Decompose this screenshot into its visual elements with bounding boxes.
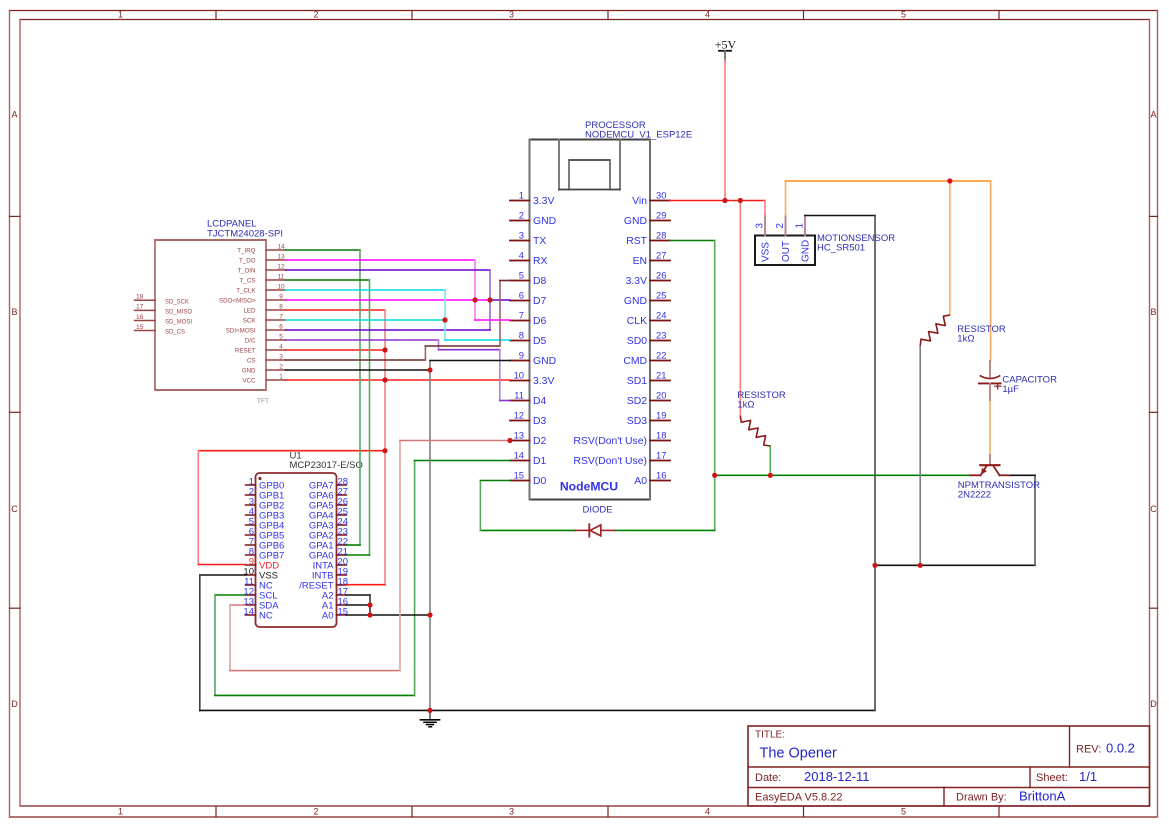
svg-text:16: 16 [136,314,144,321]
wire LCD SDI<MOSI purple [286,329,491,331]
wire resistor R2 top orange [949,181,951,315]
U1 pin 10 VSS [243,567,278,582]
wire base line green [715,474,970,476]
LCD pin 9 SDO<MISO> [219,293,285,304]
wire NodeMCU RST green [670,240,715,242]
svg-text:5: 5 [519,270,524,281]
wire LCD SCK cyan [286,319,446,321]
capacitor C1 1uF [979,361,1001,400]
wire D0 drop green [479,481,481,531]
LCD pin 5 D/C [245,333,286,344]
svg-text:TX: TX [533,236,546,247]
svg-text:The Opener: The Opener [760,745,838,761]
diode D1 [575,524,614,536]
resistor R2 1k [920,315,950,346]
svg-text:A0: A0 [634,476,647,487]
svg-text:RESET: RESET [235,347,256,354]
svg-text:29: 29 [656,210,666,221]
wire LCD RESET red [286,349,386,351]
NodeMCU pin 5 D8 [510,270,547,288]
NodeMCU pin 12 D3 [510,410,547,428]
svg-text:8: 8 [279,303,283,310]
wire SDA drop salmon [229,605,231,671]
NodeMCU pin 21 SD1 [627,370,670,388]
wire LCD T_DIN purple [286,269,491,271]
wire ground bus black [200,709,875,711]
wire U1 A1 black [347,604,371,606]
svg-text:3: 3 [509,807,514,817]
svg-text:A0: A0 [322,610,334,621]
svg-text:A: A [11,110,17,120]
svg-text:9: 9 [279,293,283,300]
NodeMCU pin 1 3.3V [510,190,554,208]
wire +5V drop red [724,61,726,201]
NodeMCU pin 15 D0 [510,470,547,488]
svg-text:15: 15 [338,607,349,618]
svg-text:1kΩ: 1kΩ [737,400,754,411]
svg-text:TJCTM24028-SPI: TJCTM24028-SPI [207,229,283,240]
svg-text:SD_MISO: SD_MISO [165,310,192,316]
junction RESET power [382,347,387,352]
wire LCD VCC to NodeMCU 3.3V red [286,379,511,381]
svg-text:D4: D4 [533,396,547,407]
wire T_DIN drop purple [489,270,491,330]
svg-text:A: A [1150,110,1156,120]
svg-text:TITLE:: TITLE: [755,730,785,741]
NodeMCU antenna notch outer [559,140,620,190]
junction sensor gnd emitter [872,563,877,568]
junction SDO D7 [487,297,492,302]
svg-text:11: 11 [278,273,285,280]
svg-text:21: 21 [656,370,666,381]
NodeMCU pin 17 RSV(Don't Use) [573,450,670,468]
U1 pin 7 GPB6 [246,537,285,552]
NodeMCU processor box [530,140,651,500]
U1 pin 2 GPB1 [246,487,285,502]
frame row labels left [11,110,18,710]
U1 pin 21 GPA0 [309,547,348,562]
U1 pin 15 A0 [322,607,348,622]
U1 pin 3 GPB2 [246,497,285,512]
svg-text:1: 1 [118,807,123,817]
U1 pin 19 INTB [312,567,348,582]
NodeMCU pin 2 GND [510,210,556,228]
wire diode right green [615,529,715,531]
svg-text:16: 16 [656,470,666,481]
wire CS jog brown [424,346,426,360]
svg-text:B: B [1150,307,1156,317]
svg-text:SDO<MISO>: SDO<MISO> [219,297,256,304]
svg-text:7: 7 [279,313,283,320]
svg-text:3: 3 [509,10,514,20]
frame row labels right [1150,110,1157,710]
svg-text:19: 19 [656,410,666,421]
svg-text:HC_SR501: HC_SR501 [817,243,865,254]
svg-text:3: 3 [755,223,766,229]
svg-text:D5: D5 [533,336,547,347]
wire CS mid brown [425,345,500,347]
wire capacitor top orange [990,181,992,361]
LCD pin 13 T_DO [239,253,286,264]
svg-text:D/C: D/C [245,337,256,344]
junction orange R2 [947,178,952,183]
motion sensor pin 2 OUT [775,216,792,263]
svg-text:18: 18 [136,294,144,301]
NodeMCU pin 22 CMD [623,350,670,368]
svg-text:11: 11 [514,390,524,401]
NodeMCU pin 28 RST [626,230,670,248]
wire SCL to D1 bottom green [215,694,415,696]
svg-text:GND: GND [533,216,556,227]
svg-text:RSV(Don't Use): RSV(Don't Use) [573,456,647,467]
svg-text:VSS: VSS [761,242,772,262]
svg-text:RST: RST [626,236,647,247]
wire transistor emitter black [1010,474,1036,476]
svg-text:1kΩ: 1kΩ [957,334,974,345]
junction A2 A1 [367,602,372,607]
svg-text:20: 20 [656,390,666,401]
svg-text:3: 3 [519,230,524,241]
svg-text:27: 27 [656,250,666,261]
svg-text:SD1: SD1 [627,376,647,387]
svg-text:14: 14 [277,243,285,250]
svg-text:8: 8 [519,330,524,341]
wire red VDD drop [197,451,199,565]
junction R2 gnd [918,563,923,568]
U1 pin 23 GPA2 [309,527,348,542]
svg-text:SD_SCK: SD_SCK [165,300,189,306]
NodeMCU pin 27 EN [633,250,670,268]
frame column labels top [118,10,906,20]
wire U1 SDA salmon [230,604,246,606]
U1 pin 24 GPA3 [309,517,348,532]
svg-text:13: 13 [514,430,524,441]
LCD pin 16 SD_MOSI [135,314,193,326]
svg-text:OUT: OUT [781,241,792,262]
svg-text:1µF: 1µF [1002,384,1019,395]
junction D2 pin [507,438,512,443]
wire LCD CS brown [286,359,426,361]
svg-text:13: 13 [277,253,285,260]
wire NodeMCU D8 brown [500,280,510,282]
svg-text:RSV(Don't Use): RSV(Don't Use) [573,436,647,447]
LCD pin 4 RESET [235,343,286,354]
svg-text:D7: D7 [533,296,547,307]
U1 pin 13 SDA [243,597,279,612]
svg-text:23: 23 [656,330,666,341]
U1 pin 25 GPA4 [309,507,348,522]
svg-text:D: D [11,699,18,709]
wire NodeMCU D5 cyan [445,339,510,341]
wire U1 GPA0 green [347,554,370,556]
svg-text:6: 6 [519,290,524,301]
NodeMCU antenna notch inner [569,160,610,190]
wire T_CS to GPA0 green [369,280,371,555]
svg-text:0.0.2: 0.0.2 [1106,741,1135,756]
wire capacitor to base orange [989,400,991,456]
wire NodeMCU D7 purple [490,299,510,301]
svg-text:T_DIN: T_DIN [238,267,256,274]
junction +5V Vin [722,198,727,203]
wire sensor OUT orange [785,181,787,216]
junction A1 A0 [367,612,372,617]
junction SCK T_CLK [442,317,447,322]
LCD pin 8 LED [243,303,285,314]
svg-text:GND: GND [801,240,812,262]
svg-text:B: B [11,307,17,317]
svg-text:10: 10 [277,283,285,290]
svg-text:4: 4 [705,807,710,817]
wire U1 A2 black [347,594,371,596]
svg-text:14: 14 [243,607,254,618]
junction A0 GND [427,612,432,617]
wire LCD GND black [286,369,431,371]
wire NodeMCU D1 green [415,460,510,462]
wire NodeMCU D0 green [480,480,510,482]
junction T_DO SDO [472,297,477,302]
svg-text:2: 2 [775,223,786,228]
svg-text:GND: GND [242,367,256,374]
wire U1 /RESET red [347,584,386,586]
svg-text:REV:: REV: [1076,744,1101,756]
svg-text:10: 10 [514,370,524,381]
svg-text:18: 18 [656,430,666,441]
svg-text:2: 2 [279,363,283,370]
frame column labels bottom [118,807,906,817]
svg-text:GND: GND [533,356,556,367]
wire resistor R1 bottom green [769,446,771,475]
svg-text:3: 3 [279,353,283,360]
U1 pin 16 A1 [322,597,348,612]
svg-text:BrittonA: BrittonA [1019,789,1066,804]
U1 pin 26 GPA5 [309,497,348,512]
U1 pin 17 A2 [322,587,348,602]
motion sensor HC_SR501 box [755,236,815,266]
U1 pin 4 GPB3 [246,507,285,522]
wire resistor R2 bottom gray [919,346,921,566]
svg-text:3.3V: 3.3V [626,276,647,287]
svg-text:5: 5 [901,807,906,817]
NodeMCU pin 10 3.3V [510,370,554,388]
svg-text:3.3V: 3.3V [533,376,554,387]
svg-text:D3: D3 [533,416,547,427]
U1 pin 12 SCL [243,587,277,602]
wire RST drop green [714,241,716,476]
+5V power flag [715,37,737,60]
wire D/C mid violet [439,349,500,351]
wire LCD T_CS green [286,279,370,281]
wire sensor VSS red [764,201,766,216]
svg-text:5: 5 [279,333,283,340]
svg-text:TFT: TFT [257,398,269,405]
wire VSS drop black [199,575,201,710]
LCD pin 12 T_DIN [238,263,286,274]
svg-text:T_IRQ: T_IRQ [237,247,255,254]
svg-text:9: 9 [519,350,524,361]
wire LCD LED red [286,309,386,311]
svg-text:SCK: SCK [243,317,257,324]
svg-text:26: 26 [656,270,666,281]
svg-text:D0: D0 [533,476,547,487]
ground [421,710,440,726]
wire LCD D/C violet [286,339,439,341]
NodeMCU pin 8 D5 [510,330,547,348]
wire orange top [786,180,991,182]
svg-text:RX: RX [533,256,548,267]
U1 pin 14 NC [243,607,272,622]
svg-text:Drawn By:: Drawn By: [956,792,1007,804]
svg-text:5: 5 [901,10,906,20]
LCD pin 11 T_CS [240,273,286,284]
NodeMCU pin 25 GND [624,290,670,308]
NodeMCU pin 11 D4 [510,390,547,408]
svg-text:Sheet:: Sheet: [1036,772,1068,784]
title block [748,726,1150,806]
transistor Q1 2N2222 [970,455,1009,475]
junction ground bus [427,708,432,713]
svg-text:1/1: 1/1 [1079,769,1097,784]
svg-text:D8: D8 [533,276,547,287]
junction LCD GND [427,367,432,372]
wire Vin red [670,200,765,202]
svg-text:SD3: SD3 [627,416,647,427]
op-amp U1 MCP23017-E/SO box [256,473,337,627]
wire red power vertical x385 [384,310,386,585]
resistor R1 1k [740,416,770,446]
svg-text:17: 17 [136,304,144,311]
NodeMCU pin 23 SD0 [627,330,670,348]
U1 pin 18 /RESET [299,577,348,592]
LCD pin 1 VCC [242,373,285,384]
LCD pin 14 T_IRQ [237,243,285,254]
motion sensor pin 3 VSS [755,216,772,263]
wire emitter to gnd black [875,564,1035,566]
svg-text:SD_CS: SD_CS [165,330,185,336]
junction R1 top [738,198,743,203]
svg-text:EN: EN [633,256,647,267]
svg-text:CLK: CLK [627,316,647,327]
svg-text:MCP23017-E/SO: MCP23017-E/SO [290,460,363,471]
wire NodeMCU D6 magenta [475,319,510,321]
svg-text:7: 7 [519,310,524,321]
svg-text:30: 30 [656,190,666,201]
svg-text:GND: GND [624,296,647,307]
LCD pin 6 SDI<MOSI [226,323,286,334]
wire D2 riser salmon [399,441,401,671]
U1 pin 5 GPB4 [246,517,285,532]
wire D4 riser violet [499,350,501,401]
svg-text:1: 1 [795,223,806,228]
U1 pin 27 GPA6 [309,487,348,502]
NodeMCU pin 29 GND [624,210,670,228]
NodeMCU pin 13 D2 [510,430,547,448]
NodeMCU pin 4 RX [510,250,548,268]
wire U1 VSS black [200,574,246,576]
wire sensor GND drop black [874,216,876,711]
wire D8 riser brown [499,281,501,347]
svg-text:14: 14 [514,450,524,461]
junction R1 base [768,473,773,478]
NodeMCU pin 26 3.3V [626,270,670,288]
U1 pin 11 NC [244,577,273,592]
wire NodeMCU D2 salmon [400,440,510,442]
NodeMCU pin 19 SD3 [627,410,670,428]
junction RST base [712,473,717,478]
svg-text:4: 4 [279,343,283,350]
svg-text:GND: GND [624,216,647,227]
svg-text:1: 1 [519,190,524,201]
motion sensor pin 1 GND [795,216,812,263]
wire A2 to A1 A0 black [369,595,371,615]
NodeMCU pin 24 CLK [627,310,670,328]
LCD panel LCDPANEL TJCTM24028-SPI box [155,240,266,390]
svg-text:NODEMCU_V1_ESP12E: NODEMCU_V1_ESP12E [585,130,692,141]
U1 pin 22 GPA1 [309,537,348,552]
wire sensor GND black [805,215,875,217]
U1 pin 8 GPB7 [246,547,285,562]
svg-text:NodeMCU: NodeMCU [560,480,618,494]
LCD pin 7 SCK [243,313,286,324]
svg-text:17: 17 [656,450,666,461]
svg-text:2: 2 [519,210,524,221]
U1 pin 9 VDD [246,557,280,572]
wire NodeMCU GND pin9 gray [430,360,510,362]
wire GND vertical gray [429,361,431,711]
svg-text:15: 15 [136,324,144,331]
wire red to U1 VDD horizontal [198,450,385,452]
svg-text:SD2: SD2 [627,396,647,407]
svg-text:2N2222: 2N2222 [958,490,991,501]
svg-text:EasyEDA V5.8.22: EasyEDA V5.8.22 [755,792,842,804]
svg-text:2018-12-11: 2018-12-11 [804,769,870,784]
svg-text:SD0: SD0 [627,336,647,347]
wire U1 SCL green [215,594,246,596]
wire T_CLK drop cyan [444,290,446,340]
svg-text:4: 4 [519,250,524,261]
svg-text:22: 22 [656,350,666,361]
U1 pin 28 GPA7 [309,477,348,492]
svg-text:Vin: Vin [632,196,647,207]
svg-text:D2: D2 [533,436,547,447]
wire U1 VDD red [198,564,245,566]
svg-text:DIODE: DIODE [582,505,612,516]
svg-text:T_DO: T_DO [239,257,256,264]
svg-text:D6: D6 [533,316,547,327]
svg-text:SDI<MOSI: SDI<MOSI [226,327,256,334]
svg-text:12: 12 [514,410,524,421]
svg-text:28: 28 [656,230,666,241]
NodeMCU pin 18 RSV(Don't Use) [573,430,670,448]
svg-text:T_CS: T_CS [240,277,256,284]
LCD pin 3 CS [247,353,286,364]
wire SCL drop green [214,595,216,695]
svg-text:6: 6 [279,323,283,330]
U1 pin 1 GPB0 [246,477,285,492]
wire emitter drop black [1034,475,1036,565]
junction VCC power [382,377,387,382]
svg-text:Date:: Date: [755,772,781,784]
svg-text:25: 25 [656,290,666,301]
svg-text:3.3V: 3.3V [533,196,554,207]
svg-text:2: 2 [313,10,318,20]
svg-text:NC: NC [259,610,273,621]
svg-text:24: 24 [656,310,666,321]
NodeMCU pin 9 GND [510,350,556,368]
svg-text:+5V: +5V [715,37,737,51]
wire T_DO drop magenta [474,260,476,320]
junction VDD power [382,448,387,453]
svg-text:1: 1 [279,373,283,380]
